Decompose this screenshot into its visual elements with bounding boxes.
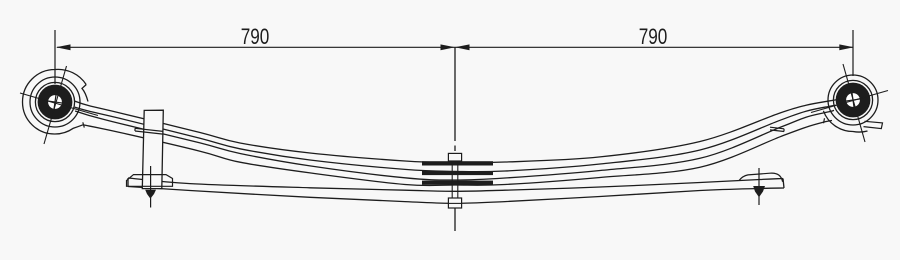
svg-text:790: 790 [639, 25, 668, 50]
svg-text:790: 790 [241, 25, 270, 50]
